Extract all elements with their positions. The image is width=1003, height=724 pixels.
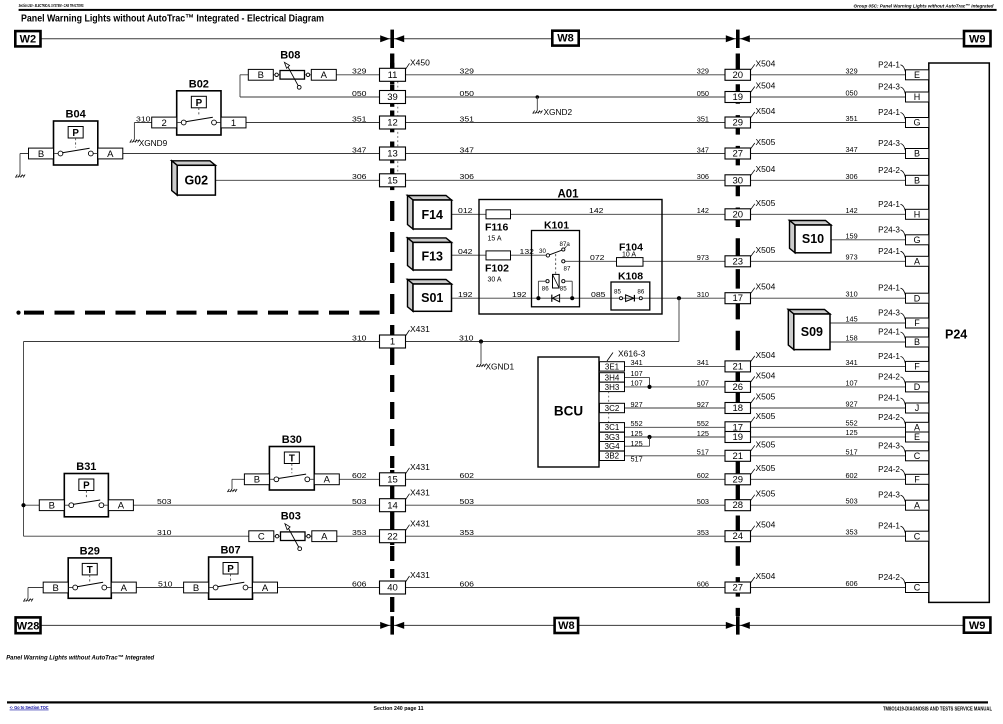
- svg-text:X504: X504: [756, 370, 776, 380]
- svg-text:050: 050: [460, 89, 475, 98]
- svg-text:P24-1: P24-1: [878, 247, 900, 256]
- svg-text:K108: K108: [618, 271, 643, 283]
- svg-text:P24-1: P24-1: [878, 284, 900, 293]
- P24 pin H at y214.3: [906, 209, 929, 219]
- svg-text:3H3: 3H3: [605, 383, 620, 392]
- svg-text:145: 145: [846, 315, 858, 324]
- svg-text:X505: X505: [756, 439, 776, 449]
- svg-text:P24-3: P24-3: [878, 309, 900, 318]
- svg-text:A: A: [324, 475, 331, 486]
- svg-text:3G3: 3G3: [604, 433, 620, 442]
- svg-text:B: B: [193, 583, 199, 594]
- svg-text:X504: X504: [756, 520, 776, 530]
- connector X431 pin 40: [380, 581, 406, 594]
- svg-text:P24: P24: [945, 328, 967, 342]
- svg-text:F13: F13: [421, 250, 443, 264]
- svg-text:B: B: [914, 337, 920, 347]
- svg-text:A: A: [914, 423, 920, 433]
- connector X504 pin 19 at y97: [725, 92, 751, 103]
- svg-text:29: 29: [733, 474, 744, 485]
- connector X450 pin 13: [380, 147, 406, 160]
- svg-text:Panel Warning Lights without A: Panel Warning Lights without AutoTrac™ I…: [6, 654, 155, 661]
- svg-text:X504: X504: [756, 164, 776, 174]
- svg-text:W8: W8: [558, 620, 575, 632]
- connector X504 pin 24 at y536.2: [725, 531, 751, 542]
- P24 pin E at y74.8: [906, 70, 929, 80]
- svg-text:X505: X505: [756, 489, 776, 499]
- ground B04: [19, 154, 21, 175]
- relay K101 pin 87: [562, 260, 565, 263]
- svg-text:927: 927: [631, 400, 643, 409]
- P24 pin C at y536.2: [906, 531, 929, 541]
- svg-text:28: 28: [733, 500, 744, 511]
- switch S01 box: [408, 280, 452, 285]
- header rule: [19, 9, 997, 11]
- ground B30: [231, 479, 233, 489]
- svg-text:351: 351: [352, 114, 367, 123]
- svg-text:Section 240 - ELECTRICAL SYSTE: Section 240 - ELECTRICAL SYSTEM - CAB TR…: [19, 3, 84, 8]
- svg-text:X616-3: X616-3: [618, 349, 646, 359]
- relay K101 coil junctions: [536, 296, 540, 300]
- svg-text:J: J: [915, 403, 920, 413]
- svg-text:W9: W9: [969, 33, 986, 45]
- relay K101 switch arm: [550, 250, 562, 255]
- svg-text:606: 606: [697, 579, 709, 588]
- BCU pin 3C1: [600, 423, 625, 432]
- svg-text:XGND2: XGND2: [544, 107, 573, 117]
- relay K101 diode: [552, 295, 559, 302]
- svg-text:503: 503: [697, 497, 709, 506]
- connector X505 pin 21 at y455.8: [725, 450, 751, 461]
- svg-text:P24-1: P24-1: [878, 352, 900, 361]
- BCU pin 3H4: [600, 373, 625, 382]
- svg-text:TM8O1419-DIAGNOSIS AND TESTS S: TM8O1419-DIAGNOSIS AND TESTS SERVICE MAN…: [883, 707, 993, 713]
- svg-text:125: 125: [631, 429, 643, 438]
- connector X505 pin 20 at y214.3: [725, 209, 751, 220]
- P24 pin D at y298.2: [906, 293, 929, 303]
- svg-text:3H4: 3H4: [605, 373, 620, 382]
- harness label W2: [15, 31, 40, 46]
- svg-text:329: 329: [460, 67, 475, 76]
- svg-text:85: 85: [614, 289, 621, 296]
- wire 602 row: [232, 478, 906, 480]
- wire 050 row: [239, 75, 241, 97]
- svg-text:347: 347: [697, 145, 709, 154]
- svg-text:W2: W2: [20, 34, 37, 46]
- svg-text:1: 1: [390, 337, 395, 348]
- wire 310 X431 row: [24, 341, 680, 343]
- svg-text:20: 20: [733, 70, 744, 81]
- svg-text:C: C: [258, 532, 265, 543]
- svg-text:F: F: [914, 318, 920, 328]
- svg-text:050: 050: [846, 89, 858, 98]
- svg-text:B30: B30: [282, 434, 302, 446]
- svg-text:23: 23: [733, 256, 744, 267]
- svg-text:S10: S10: [802, 232, 824, 246]
- svg-text:347: 347: [846, 145, 858, 154]
- connector X450 pin 39: [380, 91, 406, 104]
- wire 125 3G4 segment: [625, 445, 650, 447]
- P24 pin A at y427.3: [906, 422, 929, 432]
- svg-text:602: 602: [460, 471, 475, 480]
- junction K108 output: [677, 296, 681, 300]
- fuse F116: [486, 210, 511, 219]
- svg-text:B: B: [38, 149, 44, 160]
- svg-text:B08: B08: [280, 49, 300, 61]
- svg-text:142: 142: [589, 206, 604, 215]
- connector X504 pin 29 at y122.5: [725, 117, 751, 128]
- P24 pin B at y342: [906, 337, 929, 347]
- wire 310 left vertical: [23, 342, 25, 537]
- connector X505 pin 19 at y437: [725, 432, 751, 443]
- svg-text:927: 927: [846, 400, 858, 409]
- wire 341 row: [625, 365, 906, 367]
- svg-text:F102: F102: [485, 263, 509, 275]
- svg-text:552: 552: [846, 418, 858, 427]
- wire 192/085/310 row: [452, 297, 906, 299]
- svg-text:22: 22: [387, 531, 398, 542]
- svg-text:517: 517: [631, 455, 643, 464]
- svg-text:B29: B29: [80, 545, 100, 557]
- svg-text:310: 310: [136, 115, 151, 124]
- svg-text:G: G: [913, 235, 920, 245]
- footer rule: [7, 701, 988, 703]
- svg-text:19: 19: [733, 92, 744, 103]
- wire 927 row: [625, 407, 906, 409]
- wire 517 row: [625, 455, 906, 457]
- svg-text:X431: X431: [410, 488, 430, 498]
- ground B29: [27, 588, 29, 599]
- svg-text:87: 87: [564, 266, 571, 273]
- P24 pin H at y97: [906, 92, 929, 102]
- wire 310 B02 to XGND9: [134, 122, 152, 124]
- connector X504 pin 27 at y587.5: [725, 582, 751, 593]
- svg-text:14: 14: [387, 500, 398, 511]
- wire 107 row: [625, 386, 906, 388]
- junction XGND2: [536, 95, 540, 99]
- svg-text:510: 510: [158, 579, 173, 588]
- connector X431 pin 15: [380, 473, 406, 486]
- svg-text:P24-1: P24-1: [878, 394, 900, 403]
- wire 503 row: [24, 504, 906, 506]
- svg-text:15: 15: [387, 475, 398, 486]
- svg-text:<- Go to Section TOC: <- Go to Section TOC: [10, 705, 49, 710]
- svg-text:39: 39: [387, 92, 398, 103]
- controller BCU box: [538, 357, 599, 467]
- svg-text:X505: X505: [756, 463, 776, 473]
- svg-text:K101: K101: [544, 220, 569, 232]
- svg-text:341: 341: [846, 358, 858, 367]
- diode module K108 box: [611, 282, 650, 310]
- svg-text:306: 306: [697, 172, 709, 181]
- connector X504 pin 20 at y74.8: [725, 69, 751, 80]
- svg-text:050: 050: [352, 89, 367, 98]
- svg-text:G: G: [913, 118, 920, 128]
- wire 310/353 row: [24, 535, 906, 537]
- relay K101 box: [532, 231, 580, 307]
- svg-text:29: 29: [733, 118, 744, 129]
- svg-text:973: 973: [697, 253, 709, 262]
- svg-text:20: 20: [733, 209, 744, 220]
- svg-text:G02: G02: [184, 174, 208, 188]
- svg-text:085: 085: [591, 290, 606, 299]
- svg-text:P24-3: P24-3: [878, 225, 900, 234]
- svg-text:C: C: [914, 531, 921, 541]
- svg-text:X504: X504: [756, 81, 776, 91]
- svg-text:B02: B02: [189, 78, 209, 90]
- wire 125 row: [625, 436, 906, 438]
- connector X450 pin 12: [380, 116, 406, 129]
- svg-text:A: A: [321, 532, 328, 543]
- svg-text:353: 353: [460, 528, 475, 537]
- svg-text:W28: W28: [17, 620, 40, 632]
- svg-text:P24-1: P24-1: [878, 200, 900, 209]
- svg-text:159: 159: [846, 231, 858, 240]
- svg-text:D: D: [914, 382, 921, 392]
- connector X505 pin 27 at y153.5: [725, 148, 751, 159]
- K108 pin 86: [639, 297, 642, 300]
- svg-text:B: B: [914, 176, 920, 186]
- svg-text:2: 2: [162, 118, 167, 129]
- svg-text:F116: F116: [485, 222, 509, 234]
- svg-text:26: 26: [733, 382, 744, 393]
- svg-text:87a: 87a: [560, 241, 571, 248]
- svg-text:B: B: [53, 583, 59, 594]
- harness line top: [41, 38, 553, 40]
- wire 510/606 row: [28, 587, 906, 589]
- svg-text:306: 306: [352, 172, 367, 181]
- relay K101 coil link: [555, 254, 557, 274]
- svg-text:24: 24: [733, 531, 744, 542]
- harness divider top right: [726, 35, 736, 42]
- svg-text:P24-3: P24-3: [878, 441, 900, 450]
- svg-text:21: 21: [733, 451, 744, 462]
- P24 pin D at y386.9: [906, 382, 929, 392]
- svg-text:3B2: 3B2: [605, 452, 620, 461]
- svg-text:13: 13: [387, 149, 398, 160]
- svg-text:A: A: [914, 257, 920, 267]
- svg-text:P24-2: P24-2: [878, 413, 900, 422]
- svg-text:329: 329: [846, 66, 858, 75]
- svg-text:S01: S01: [421, 291, 443, 305]
- connector X431 pin 1: [380, 335, 406, 348]
- svg-text:503: 503: [352, 497, 367, 506]
- relay K101 coil: [553, 274, 560, 288]
- svg-text:Panel Warning Lights without A: Panel Warning Lights without AutoTrac™ I…: [21, 13, 324, 24]
- svg-text:142: 142: [846, 206, 858, 215]
- svg-text:A: A: [121, 583, 128, 594]
- switch S09 box: [788, 310, 830, 315]
- svg-text:X505: X505: [756, 392, 776, 402]
- svg-text:T: T: [289, 454, 295, 465]
- switch S10 box: [790, 221, 832, 226]
- svg-text:517: 517: [697, 448, 709, 457]
- connector X504 pin 21 at y366.4: [725, 361, 751, 372]
- P24 pin F at y479.3: [906, 474, 929, 484]
- svg-text:18: 18: [733, 403, 744, 414]
- P24 pin C at y455.8: [906, 451, 929, 461]
- svg-text:125: 125: [846, 428, 858, 437]
- relay K101 pin 87a: [562, 248, 565, 251]
- svg-text:072: 072: [590, 253, 605, 262]
- svg-text:X504: X504: [756, 58, 776, 68]
- svg-text:A01: A01: [557, 189, 579, 201]
- harness dashed boundary horizontal W28: [16, 311, 20, 315]
- svg-text:353: 353: [846, 528, 858, 537]
- harness label W9 bottom: [964, 618, 991, 633]
- svg-text:X504: X504: [756, 282, 776, 292]
- svg-text:P: P: [83, 481, 90, 492]
- svg-text:12: 12: [387, 118, 398, 129]
- svg-text:A: A: [262, 583, 269, 594]
- svg-text:X505: X505: [756, 411, 776, 421]
- svg-text:X431: X431: [410, 324, 430, 334]
- P24 pin C at y587.5: [906, 583, 929, 593]
- svg-text:310: 310: [352, 333, 367, 342]
- wire 107 3H4 segment: [625, 376, 650, 378]
- svg-text:19: 19: [733, 432, 744, 443]
- svg-text:86: 86: [637, 289, 644, 296]
- connector X505 pin 18 at y408: [725, 403, 751, 414]
- wire 347 row: [20, 153, 906, 155]
- ground XGND9: [130, 140, 132, 143]
- svg-text:17: 17: [733, 293, 744, 304]
- P24 pin B at y153.5: [906, 149, 929, 159]
- svg-text:B04: B04: [66, 109, 87, 121]
- svg-text:B: B: [258, 70, 264, 81]
- svg-text:329: 329: [352, 67, 367, 76]
- svg-text:C: C: [914, 451, 921, 461]
- harness label W28: [16, 617, 41, 633]
- svg-text:050: 050: [697, 89, 709, 98]
- svg-text:11: 11: [388, 70, 398, 81]
- svg-text:E: E: [914, 70, 920, 80]
- svg-text:15: 15: [387, 176, 398, 187]
- svg-text:X431: X431: [410, 570, 430, 580]
- svg-text:X504: X504: [756, 350, 776, 360]
- svg-text:Group 05C: Panel Warning Light: Group 05C: Panel Warning Lights without …: [854, 3, 995, 9]
- svg-text:B: B: [254, 475, 260, 486]
- svg-text:310: 310: [459, 333, 474, 342]
- connector P24 box: [929, 63, 990, 602]
- svg-text:X504: X504: [756, 106, 776, 116]
- svg-text:W9: W9: [969, 620, 986, 632]
- svg-text:042: 042: [458, 247, 473, 256]
- svg-text:X450: X450: [410, 57, 430, 67]
- svg-text:B: B: [49, 501, 55, 512]
- svg-text:F: F: [914, 362, 920, 372]
- svg-text:S09: S09: [801, 325, 823, 339]
- svg-text:P24-2: P24-2: [878, 573, 900, 582]
- svg-text:X504: X504: [756, 571, 776, 581]
- svg-text:310: 310: [697, 290, 709, 299]
- BCU pin 3B2: [600, 451, 625, 460]
- svg-text:X431: X431: [410, 519, 430, 529]
- svg-text:125: 125: [631, 439, 643, 448]
- svg-text:606: 606: [352, 579, 367, 588]
- svg-text:30 A: 30 A: [488, 277, 502, 284]
- svg-text:3E1: 3E1: [605, 362, 620, 371]
- svg-text:P24-2: P24-2: [878, 465, 900, 474]
- wire 072/973 row: [564, 260, 906, 262]
- connector X504 pin 30 at y180.3: [725, 175, 751, 186]
- BCU pin 3E1: [600, 362, 625, 371]
- svg-text:552: 552: [631, 419, 643, 428]
- BCU pin 3G4: [600, 442, 625, 451]
- svg-text:XGND1: XGND1: [486, 362, 515, 372]
- svg-text:606: 606: [846, 579, 858, 588]
- svg-text:86: 86: [542, 286, 549, 293]
- junction XGND1: [479, 339, 483, 343]
- svg-text:XGND9: XGND9: [139, 138, 168, 148]
- harness dashed boundary right: [736, 54, 740, 617]
- svg-text:341: 341: [697, 358, 709, 367]
- svg-text:X431: X431: [410, 462, 430, 472]
- svg-text:192: 192: [512, 290, 527, 299]
- svg-text:P24-2: P24-2: [878, 166, 900, 175]
- svg-text:517: 517: [846, 447, 858, 456]
- connector X505 pin 28 at y505.2: [725, 500, 751, 511]
- connector X450 pin 11: [380, 68, 406, 81]
- svg-text:552: 552: [697, 419, 709, 428]
- svg-text:503: 503: [157, 497, 172, 506]
- svg-text:927: 927: [697, 400, 709, 409]
- svg-text:606: 606: [460, 579, 475, 588]
- harness label W8 top: [552, 31, 578, 46]
- svg-text:Section 240 page 11: Section 240 page 11: [374, 706, 425, 712]
- connector X505 pin 29 at y479.3: [725, 474, 751, 485]
- connector X505 pin 17 at y427.3: [725, 422, 751, 433]
- P24 pin E at y437: [906, 432, 929, 442]
- wire 306 row: [215, 179, 905, 181]
- svg-text:351: 351: [697, 114, 709, 123]
- svg-text:1: 1: [231, 118, 236, 129]
- svg-text:P24-3: P24-3: [878, 139, 900, 148]
- svg-text:D: D: [914, 293, 921, 303]
- P24 pin F at y366.4: [906, 361, 929, 371]
- svg-text:P: P: [227, 564, 234, 575]
- svg-text:E: E: [914, 432, 920, 442]
- svg-text:A: A: [118, 501, 125, 512]
- svg-text:X505: X505: [756, 137, 776, 147]
- wire 159 row: [831, 239, 906, 241]
- svg-text:A: A: [107, 149, 114, 160]
- P24 pin B at y180.3: [906, 175, 929, 185]
- wire 012/142 row: [452, 213, 906, 215]
- svg-text:192: 192: [458, 290, 473, 299]
- svg-text:T: T: [87, 565, 93, 576]
- svg-text:W8: W8: [557, 33, 574, 45]
- svg-text:B31: B31: [76, 461, 96, 473]
- harness divider top left: [380, 35, 390, 42]
- svg-text:30: 30: [539, 248, 546, 255]
- connector X504 pin 26 at y386.9: [725, 381, 751, 392]
- svg-text:973: 973: [846, 253, 858, 262]
- connector X504 pin 17 at y298.2: [725, 293, 751, 304]
- BCU pin 3G3: [600, 432, 625, 441]
- P24 pin G at y239.8: [906, 235, 929, 245]
- K108 diode: [626, 295, 634, 302]
- svg-text:306: 306: [846, 172, 858, 181]
- svg-text:310: 310: [846, 290, 858, 299]
- wire 158 row: [830, 341, 906, 343]
- svg-text:158: 158: [846, 334, 858, 343]
- svg-text:107: 107: [631, 369, 643, 378]
- svg-text:H: H: [914, 92, 921, 102]
- svg-text:012: 012: [458, 206, 473, 215]
- harness divider bottom left: [380, 622, 390, 629]
- svg-text:107: 107: [631, 379, 643, 388]
